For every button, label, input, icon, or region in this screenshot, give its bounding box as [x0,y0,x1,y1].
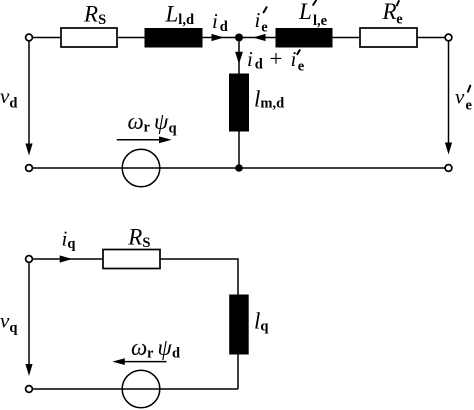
voltage arrow vd (left side, downward) [28,41,30,150]
current arrow i'e (points left) [253,34,266,41]
wire top-left to RS [32,37,61,39]
wire RS to Lld [118,37,145,39]
resistor RS (stator, q-axis) [103,250,160,269]
wire RS to right corner [160,259,238,295]
junction B (bottom dot) [235,164,243,172]
node A (top junction dot) [235,34,243,42]
inductor Ll,d (stator leakage) [145,29,202,48]
wire L'le to R'e [332,37,360,39]
wire bottom (corner to left terminal) [32,388,238,390]
terminal top-left [26,34,33,41]
terminal q bottom-left [26,386,33,393]
arrow ωr ψd (leftward above source) [125,361,167,363]
terminal bottom-left [26,165,33,172]
source circle ωr ψd [122,370,160,408]
terminal bottom-right [445,165,452,172]
wire Lld to node with current arrow [202,37,236,39]
current arrow id [212,34,225,41]
current arrow iq [60,255,72,262]
terminal top-right [445,34,452,41]
wire bottom (left terminal to right terminal) [32,167,445,169]
wire node down to lmd with current arrow [238,42,240,75]
resistor RS (stator) [61,28,117,47]
wire R'e to top-right terminal [417,37,445,39]
source circle ωr ψq [122,149,160,187]
voltage arrow v'e (right side, downward) [448,41,450,149]
wire lq down to bottom wire [237,354,239,389]
current arrow id + i'e (downward) [235,52,243,64]
wire lmd down to bottom junction [238,131,240,168]
resistor R'e (field) [360,28,417,47]
inductor lm,d (magnetizing) [230,74,249,131]
voltage arrow vq (left side, downward) [28,263,30,371]
arrow ωr ψq (rightward above source) [117,139,161,141]
wire node to L'le with reverse current arrow [242,37,276,39]
terminal q top-left [26,256,33,263]
inductor L'l,e (field leakage) [276,29,332,48]
inductor lq [230,295,249,354]
wire top-left to RS with current arrow [32,258,103,260]
